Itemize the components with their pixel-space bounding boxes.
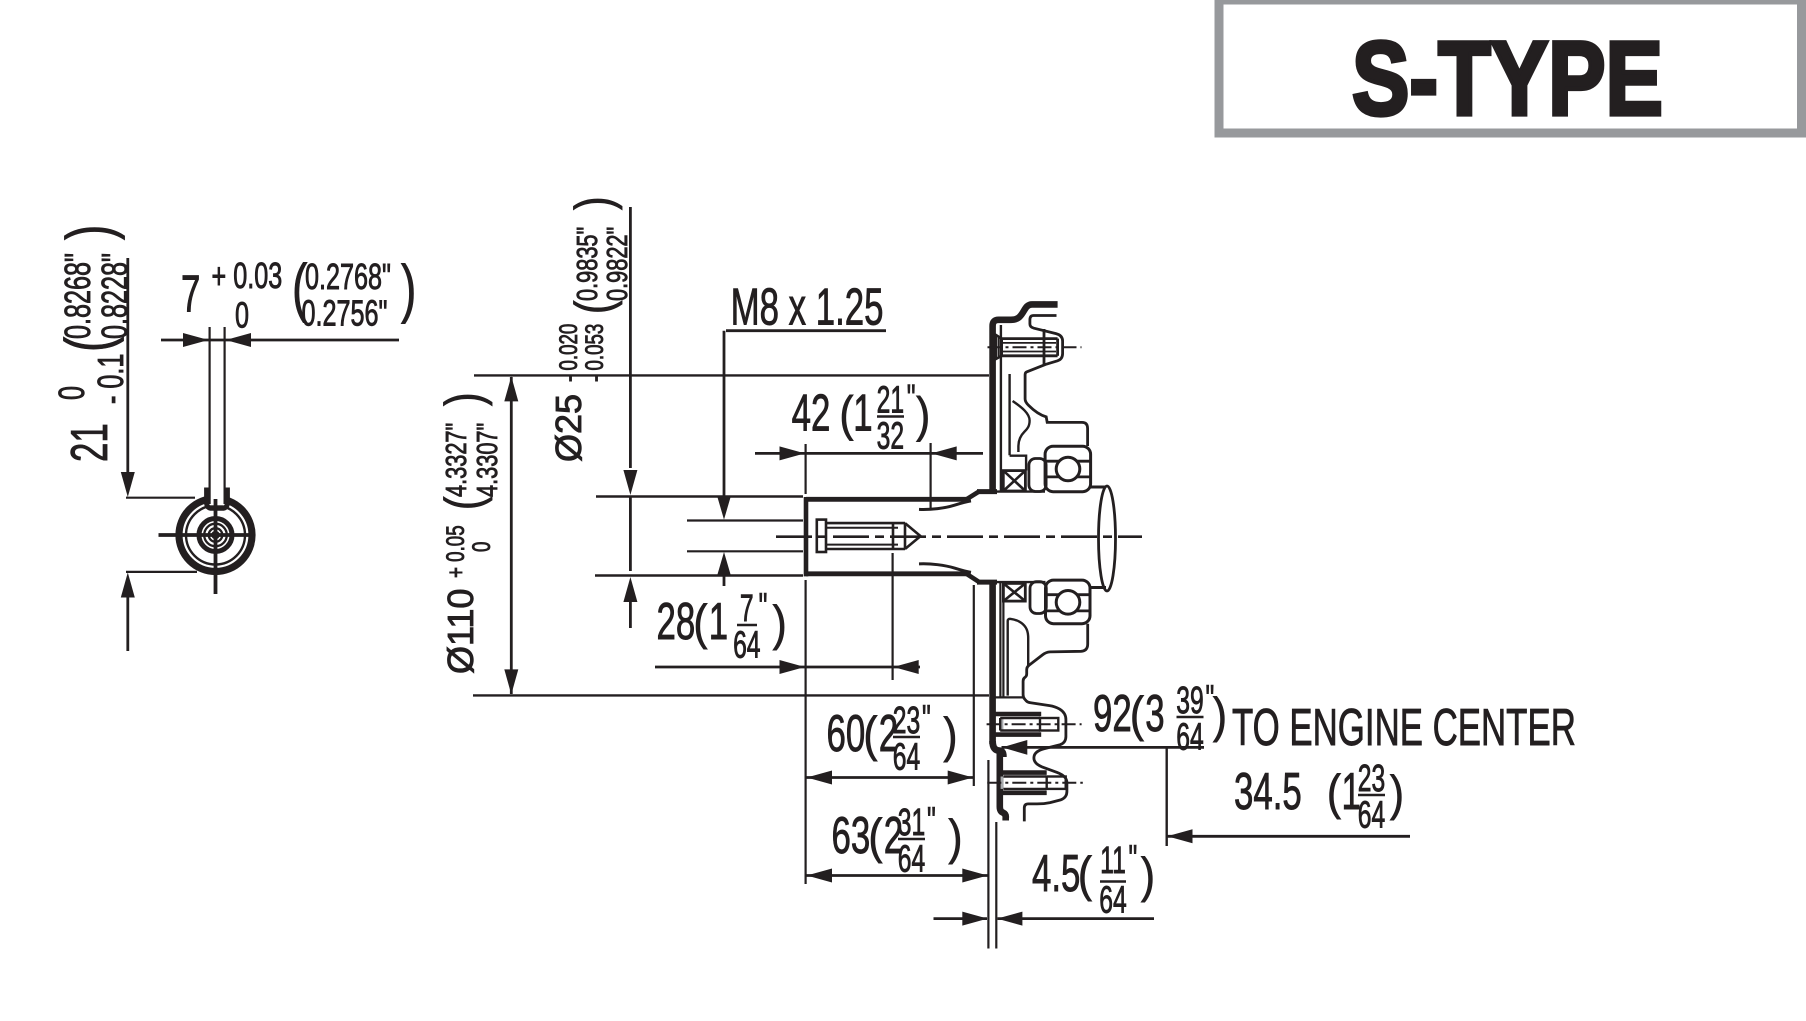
svg-text:Ø25: Ø25 <box>548 394 589 462</box>
svg-text:4.3307": 4.3307" <box>472 423 504 497</box>
svg-text:63: 63 <box>832 807 871 865</box>
svg-text:): ) <box>944 708 958 763</box>
svg-text:0: 0 <box>467 542 495 552</box>
svg-text:": " <box>922 697 931 740</box>
svg-text:M8 x 1.25: M8 x 1.25 <box>731 279 884 337</box>
svg-text:- 0.1: - 0.1 <box>91 354 132 404</box>
svg-text:64: 64 <box>733 623 760 666</box>
svg-text:- 0.053: - 0.053 <box>580 324 608 382</box>
svg-text:- 0.020: - 0.020 <box>554 324 582 382</box>
svg-text:+ 0.05: + 0.05 <box>441 525 469 578</box>
svg-text:Ø110: Ø110 <box>440 589 481 674</box>
svg-text:S-TYPE: S-TYPE <box>1352 21 1663 138</box>
svg-text:(: ( <box>564 300 622 314</box>
svg-text:): ) <box>1390 766 1404 821</box>
svg-text:(: ( <box>1327 765 1341 820</box>
svg-text:(: ( <box>434 496 492 510</box>
svg-text:1: 1 <box>709 593 728 651</box>
svg-text:(: ( <box>869 809 883 864</box>
svg-text:60: 60 <box>827 705 866 763</box>
svg-text:(: ( <box>840 386 854 441</box>
svg-text:34.5: 34.5 <box>1234 763 1302 821</box>
svg-text:TO ENGINE CENTER: TO ENGINE CENTER <box>1232 699 1576 757</box>
svg-text:32: 32 <box>877 414 904 457</box>
svg-text:42: 42 <box>792 385 831 443</box>
svg-text:(: ( <box>1078 847 1092 902</box>
svg-text:(: ( <box>694 595 708 650</box>
svg-text:4.3327": 4.3327" <box>441 423 473 497</box>
svg-text:28: 28 <box>657 593 696 651</box>
svg-text:92: 92 <box>1093 685 1132 743</box>
svg-text:): ) <box>949 810 963 865</box>
svg-text:64: 64 <box>1358 793 1385 836</box>
svg-text:0: 0 <box>52 386 93 400</box>
svg-text:): ) <box>1141 848 1155 903</box>
svg-text:7: 7 <box>181 266 200 324</box>
svg-text:": " <box>759 585 768 628</box>
svg-text:0.9835": 0.9835" <box>572 227 604 301</box>
svg-text:): ) <box>916 387 930 442</box>
svg-text:0.9822": 0.9822" <box>602 227 634 301</box>
svg-text:): ) <box>564 196 622 210</box>
svg-text:+ 0.03: + 0.03 <box>212 256 283 297</box>
svg-text:): ) <box>401 253 416 324</box>
svg-text:0.2768": 0.2768" <box>305 256 391 297</box>
svg-text:0.8268": 0.8268" <box>58 253 99 339</box>
svg-text:0.8228": 0.8228" <box>95 253 136 339</box>
svg-text:11: 11 <box>1100 839 1126 882</box>
svg-text:0.2756": 0.2756" <box>302 293 388 334</box>
svg-text:3: 3 <box>1145 685 1164 743</box>
svg-text:64: 64 <box>1099 878 1126 921</box>
svg-text:0: 0 <box>235 295 249 336</box>
svg-text:): ) <box>773 596 787 651</box>
svg-text:21: 21 <box>61 423 119 462</box>
svg-text:1: 1 <box>853 385 872 443</box>
svg-text:": " <box>907 377 916 420</box>
svg-text:64: 64 <box>898 837 925 880</box>
svg-text:): ) <box>434 392 492 406</box>
svg-text:(: ( <box>864 707 878 762</box>
svg-text:": " <box>927 799 936 842</box>
svg-text:4.5: 4.5 <box>1032 845 1080 903</box>
svg-text:(: ( <box>1130 687 1144 742</box>
svg-text:): ) <box>1213 688 1227 743</box>
svg-text:): ) <box>54 225 125 240</box>
svg-text:": " <box>1129 837 1138 880</box>
svg-text:64: 64 <box>1176 715 1203 758</box>
svg-text:64: 64 <box>893 735 920 778</box>
